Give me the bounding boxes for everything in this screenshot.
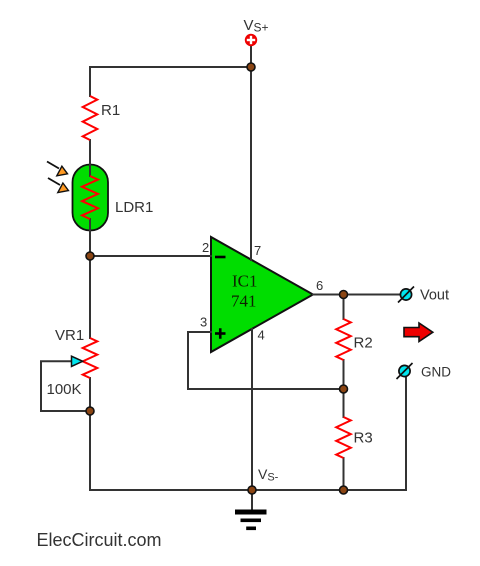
svg-text:2: 2 (202, 240, 209, 255)
svg-text:GND: GND (421, 365, 451, 380)
svg-text:3: 3 (200, 315, 207, 330)
svg-text:R1: R1 (101, 102, 120, 119)
svg-text:LDR1: LDR1 (115, 199, 153, 216)
svg-text:VS+: VS+ (244, 17, 269, 35)
svg-text:741: 741 (231, 292, 257, 311)
svg-text:Vout: Vout (420, 288, 449, 304)
svg-text:VR1: VR1 (55, 327, 84, 344)
svg-text:R3: R3 (354, 430, 373, 447)
svg-text:4: 4 (258, 328, 265, 343)
svg-text:R2: R2 (354, 335, 373, 352)
svg-text:IC1: IC1 (232, 272, 258, 291)
svg-text:6: 6 (316, 278, 323, 293)
svg-text:ElecCircuit.com: ElecCircuit.com (37, 530, 162, 550)
svg-text:100K: 100K (47, 381, 82, 398)
svg-text:7: 7 (254, 243, 261, 258)
